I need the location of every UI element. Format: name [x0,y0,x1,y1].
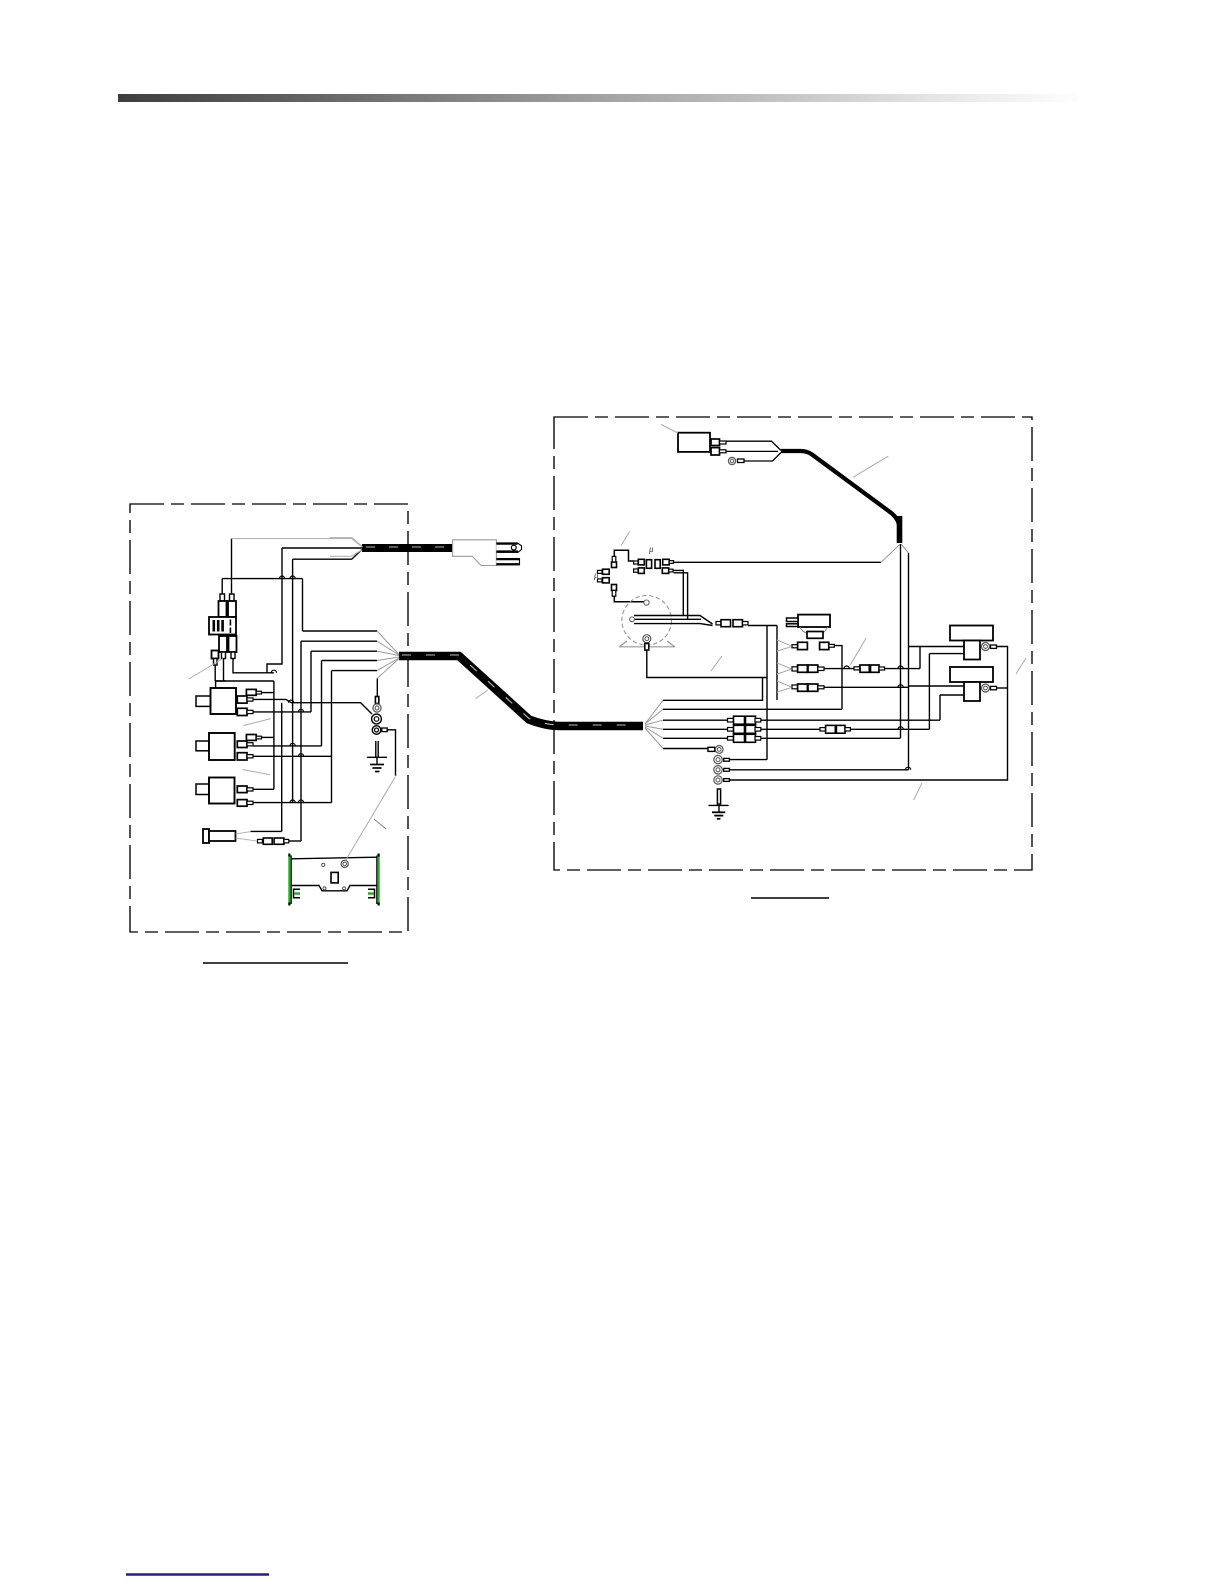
svg-text:μ: μ [593,570,599,580]
svg-text:μ: μ [648,544,654,554]
